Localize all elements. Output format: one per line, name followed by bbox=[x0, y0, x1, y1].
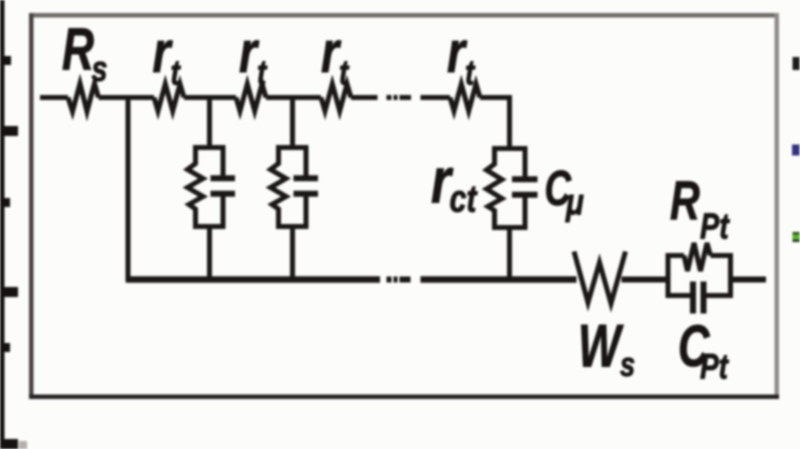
frame left border bbox=[29, 13, 34, 399]
legend marker black (right edge) bbox=[793, 57, 800, 70]
major tick bbox=[0, 126, 18, 136]
resistor RPt zigzag bbox=[684, 243, 711, 271]
major tick bbox=[0, 439, 18, 449]
svg-text:μ: μ bbox=[565, 182, 584, 223]
capacitor in RC cell 1 (right leg) bbox=[211, 145, 236, 229]
svg-text:W: W bbox=[578, 313, 624, 380]
major tick bbox=[0, 287, 18, 297]
wire to corner bbox=[480, 95, 512, 100]
svg-text:R: R bbox=[670, 171, 700, 232]
svg-text:t: t bbox=[465, 52, 476, 92]
frame right border bbox=[775, 13, 780, 399]
svg-text:s: s bbox=[620, 345, 635, 384]
resistor rt2 bbox=[236, 84, 266, 111]
svg-text:Pt: Pt bbox=[700, 346, 729, 386]
resistor in RC cell 1 (left leg) bbox=[188, 145, 204, 229]
frame bottom border bbox=[29, 395, 779, 400]
minor tick bbox=[0, 343, 10, 352]
wire: branch B stem top bbox=[207, 95, 212, 150]
RC cell 2 top bar bbox=[277, 145, 309, 150]
wire: output to right bbox=[733, 277, 766, 283]
y-axis bar (left edge of adjacent plot) bbox=[0, 0, 5, 449]
wire bbox=[351, 95, 378, 100]
svg-text:ct: ct bbox=[450, 178, 478, 220]
RPt/CPt cell top bar bbox=[666, 253, 733, 258]
wire bbox=[99, 95, 155, 100]
wire: bottom rail to Warburg bbox=[421, 276, 577, 283]
resistor in RC cell 2 (left leg) bbox=[271, 145, 287, 229]
resistor rt4 bbox=[450, 84, 480, 111]
rct cell bottom bar bbox=[492, 225, 527, 230]
capacitor Cmu (right leg) bbox=[512, 146, 538, 230]
RPt/CPt cell left side bbox=[666, 253, 671, 298]
wire: last branch vertical from top rail corner bbox=[507, 95, 512, 151]
wire bbox=[266, 95, 321, 100]
RC cell 2 bottom bar bbox=[277, 224, 309, 229]
capacitor in RC cell 2 (right leg) bbox=[294, 145, 319, 229]
ellipsis dots on bottom rail bbox=[387, 277, 411, 283]
resistor rct (left leg) bbox=[487, 146, 503, 230]
wire: last branch stem bottom bbox=[507, 226, 512, 282]
RPt/CPt cell bottom bar bbox=[666, 293, 733, 298]
wire: top rail entry bbox=[40, 95, 68, 100]
RPt/CPt cell right side bbox=[728, 253, 733, 298]
svg-text:Pt: Pt bbox=[700, 205, 730, 246]
capacitor CPt plates bbox=[693, 282, 704, 314]
frame top border bbox=[29, 13, 779, 18]
wire: branch C stem top bbox=[290, 95, 295, 150]
svg-text:t: t bbox=[171, 52, 182, 92]
svg-text:s: s bbox=[92, 48, 108, 89]
rct cell top bar bbox=[492, 146, 527, 151]
resistor Rs bbox=[68, 84, 99, 112]
legend marker blue (right edge) bbox=[792, 145, 800, 156]
resistor rt3 bbox=[321, 84, 351, 111]
svg-text:R: R bbox=[62, 17, 94, 83]
minor tick bbox=[0, 56, 11, 65]
ellipsis dots on top rail bbox=[387, 95, 412, 100]
Warburg element Ws bbox=[574, 252, 626, 304]
wire: branch C stem bottom bbox=[290, 225, 295, 282]
wire: bottom rail left section bbox=[126, 276, 380, 283]
legend marker green (right edge) bbox=[793, 232, 800, 242]
wire: branch B stem bottom bbox=[207, 225, 212, 282]
stray gray mark bottom-left bbox=[19, 441, 27, 449]
wire bbox=[184, 95, 236, 100]
RC cell 1 top bar bbox=[194, 145, 226, 150]
minor tick bbox=[0, 198, 10, 207]
resistor rt1 bbox=[154, 84, 184, 111]
wire bbox=[421, 95, 451, 100]
wire: first vertical branch bbox=[126, 95, 131, 281]
wire: Warburg to RPt cell bbox=[622, 277, 666, 283]
svg-text:t: t bbox=[257, 52, 268, 92]
svg-text:t: t bbox=[339, 52, 350, 92]
RC cell 1 bottom bar bbox=[194, 224, 226, 229]
